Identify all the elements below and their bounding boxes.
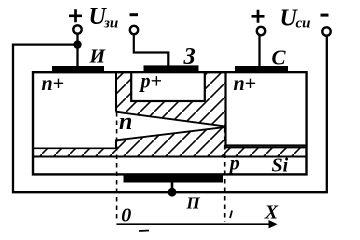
svg-text:Si: Si xyxy=(272,154,289,176)
svg-text:X: X xyxy=(264,202,279,224)
svg-text:n+: n+ xyxy=(42,73,65,95)
svg-text:0: 0 xyxy=(121,205,131,227)
svg-text:зи: зи xyxy=(103,16,118,32)
svg-text:И: И xyxy=(89,46,107,68)
svg-text:си: си xyxy=(296,16,311,32)
svg-text:p+: p+ xyxy=(139,71,162,93)
svg-text:З: З xyxy=(183,44,196,70)
svg-text:n: n xyxy=(119,109,132,135)
svg-text:П: П xyxy=(186,194,201,213)
svg-text:n+: n+ xyxy=(234,73,257,95)
svg-text:С: С xyxy=(272,45,287,69)
svg-text:p: p xyxy=(228,153,240,175)
